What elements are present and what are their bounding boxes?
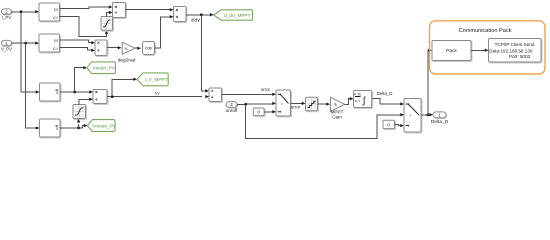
svg-text:I_V_MPPT: I_V_MPPT <box>144 77 167 83</box>
svg-text:TCP/IP Client Send: TCP/IP Client Send <box>495 42 535 47</box>
svg-text:error: error <box>291 105 301 110</box>
svg-text:I/V: I/V <box>155 91 160 96</box>
svg-text:0: 0 <box>257 110 260 115</box>
svg-text:Vmean_PV: Vmean_PV <box>92 123 117 128</box>
svg-text:cos: cos <box>145 46 152 51</box>
svg-text:Port: 5003: Port: 5003 <box>509 54 531 59</box>
svg-text:dIdV: dIdV <box>191 17 200 22</box>
svg-text:|u|: |u| <box>54 7 58 11</box>
svg-text:deg2rad: deg2rad <box>118 57 136 63</box>
svg-text:K Ts: K Ts <box>354 92 361 96</box>
svg-text:∠u: ∠u <box>52 47 57 51</box>
svg-text:≥: ≥ <box>281 102 283 106</box>
svg-text:I_PV: I_PV <box>2 15 12 20</box>
svg-text:Pack: Pack <box>446 48 457 54</box>
svg-text:Delta_D: Delta_D <box>431 119 449 125</box>
svg-text:∠u: ∠u <box>52 15 57 19</box>
svg-text:0: 0 <box>387 122 390 127</box>
svg-text:|u|: |u| <box>54 39 58 43</box>
svg-text:V_PV: V_PV <box>1 47 12 52</box>
svg-text:Imean_PV: Imean_PV <box>93 66 116 71</box>
svg-text:error: error <box>261 87 270 92</box>
svg-text:Data:: Data: <box>489 48 500 53</box>
svg-text:≥: ≥ <box>409 113 411 117</box>
svg-text:on/off: on/off <box>226 108 239 114</box>
svg-text:Gain: Gain <box>332 115 342 120</box>
svg-text:d_dV_MPPT: d_dV_MPPT <box>224 13 251 18</box>
svg-text:Delta_D: Delta_D <box>377 91 393 96</box>
svg-text:192.168.58.130: 192.168.58.130 <box>501 48 533 53</box>
svg-text:z-1: z-1 <box>355 99 360 103</box>
svg-text:Communication Pack: Communication Pack <box>459 28 512 34</box>
